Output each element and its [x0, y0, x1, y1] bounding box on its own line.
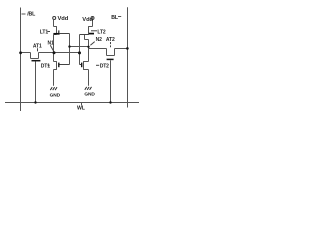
wire AT2 to BL	[115, 48, 128, 50]
label /BL leader dash	[22, 13, 26, 15]
svg-text:AT1: AT1	[33, 44, 42, 50]
svg-text:AT2: AT2	[106, 37, 115, 43]
svg-text:Vdd: Vdd	[82, 17, 93, 23]
junction AT2 gate x WL	[109, 101, 111, 103]
label LT1 leader dash	[47, 31, 50, 33]
junction line B x N2 column	[87, 46, 89, 48]
label N1 leader	[50, 45, 53, 51]
transistor DT2 (NMOS driver)	[80, 61, 89, 70]
wire right gates column (LT2/DT2 gates to N1 line)	[79, 35, 81, 65]
bit line /BL	[20, 8, 22, 112]
svg-text:DT2: DT2	[100, 63, 109, 69]
label DT1 leader dash	[48, 64, 50, 66]
svg-text:N2: N2	[96, 37, 103, 43]
svg-text:Vdd: Vdd	[58, 16, 69, 22]
wire left gates column (LT1/DT1 gates to N2 line)	[69, 34, 71, 65]
svg-text:LT2: LT2	[97, 29, 106, 35]
Vdd terminal right circle	[91, 17, 94, 20]
node N2 column	[88, 40, 90, 62]
wire N2 to AT2	[89, 48, 107, 50]
wire DT1 source to ground	[53, 70, 55, 86]
label N2 leader	[90, 42, 94, 46]
wire AT2 gate to WL	[110, 60, 112, 102]
label LT2 leader dash	[91, 30, 97, 32]
transistor LT1 (PMOS load)	[53, 26, 69, 34]
wire AT1 gate to WL	[35, 62, 37, 103]
label BL leader dash	[118, 16, 121, 18]
junction line B x left gates column	[68, 45, 70, 47]
label DT2 leader dash	[96, 64, 99, 66]
svg-text:WL: WL	[77, 106, 86, 112]
label AT1 leader	[37, 48, 39, 51]
junction node N1	[53, 51, 56, 54]
node N1 column	[53, 35, 55, 62]
ground symbol right	[85, 87, 92, 90]
bit line BL	[127, 7, 129, 107]
svg-text:GND: GND	[50, 92, 61, 98]
wire cross-couple line B (left gates to N2)	[70, 46, 89, 48]
svg-text:GND: GND	[84, 91, 95, 97]
svg-text:BL: BL	[111, 15, 119, 21]
junction AT1 gate x WL	[34, 101, 36, 103]
svg-text:N1: N1	[48, 41, 55, 47]
junction line A x right gates column	[78, 51, 81, 54]
transistor DT1 (NMOS driver)	[54, 61, 70, 70]
svg-text:DT1: DT1	[41, 63, 50, 69]
junction BL x AT2 wire	[126, 47, 129, 50]
Vdd terminal left circle	[53, 17, 56, 20]
svg-text:LT1: LT1	[40, 29, 49, 35]
junction /BL x AT1 wire	[19, 51, 22, 54]
svg-text:/BL: /BL	[27, 12, 36, 18]
wire AT1 to N1 to right gates (node line A)	[39, 52, 80, 54]
label AT2 leader	[110, 42, 112, 47]
transistor AT1 (access)	[31, 53, 41, 61]
transistor LT2 (PMOS load)	[80, 20, 95, 40]
wire /BL to AT1	[21, 52, 31, 54]
label WL leader tick	[81, 103, 83, 106]
ground symbol left	[50, 87, 57, 90]
wire Vdd left drop	[53, 20, 55, 27]
word line WL	[5, 102, 139, 104]
wire DT2 source to ground	[88, 70, 90, 86]
transistor AT2 (access)	[107, 49, 115, 60]
